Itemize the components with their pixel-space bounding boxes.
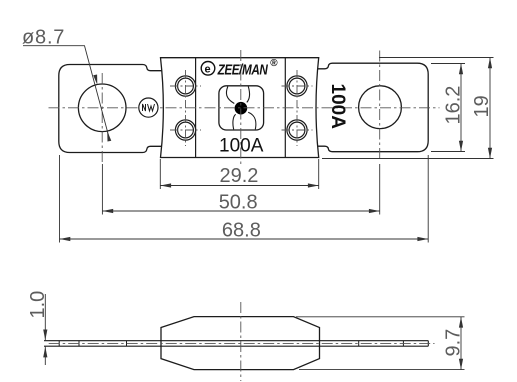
- strip hidden edges (hole projections): [59, 341, 403, 347]
- bolt centerlines: [170, 70, 313, 146]
- strip right end cap: [427, 341, 429, 347]
- dim 68.8 line: [60, 238, 429, 240]
- dim 9.7 line: [460, 317, 462, 370]
- left mounting hole: [78, 84, 126, 132]
- body parting line left: [195, 58, 197, 158]
- side view: body octagon: [161, 317, 320, 370]
- svg-text:9.7: 9.7: [443, 329, 465, 357]
- fuse element ribbon: [226, 87, 256, 130]
- svg-text:19: 19: [471, 95, 493, 117]
- svg-text:16.2: 16.2: [443, 86, 465, 125]
- dia leader line: [23, 46, 110, 141]
- dim 1.0 leader lines: [44, 294, 46, 340]
- svg-text:ø8.7: ø8.7: [22, 27, 65, 49]
- svg-text:100A: 100A: [219, 136, 264, 157]
- dim 16.2 extension lines: [431, 63, 465, 65]
- side view horizontal centerline: [49, 342, 435, 344]
- dim 29.2 extension lines: [159, 159, 161, 189]
- dim 16.2 line: [460, 64, 462, 152]
- svg-text:e: e: [205, 64, 211, 76]
- vertical centerline through window: [240, 50, 242, 164]
- body parting line right: [284, 58, 286, 158]
- inspection window: [219, 86, 264, 130]
- ZEEMAN logo: [201, 62, 215, 76]
- top view: left terminal tab outline with neck: [59, 65, 167, 153]
- bolt stud bottom-left: [175, 120, 195, 140]
- bolt stud top-right: [287, 76, 307, 96]
- svg-text:100A: 100A: [327, 84, 348, 130]
- dim 68.8 extension lines: [59, 155, 61, 243]
- dia arrows: [93, 75, 97, 85]
- bolt stud top-left: [175, 76, 307, 140]
- svg-text:®: ®: [270, 58, 278, 69]
- vertical centerline left hole: [101, 73, 103, 162]
- svg-text:29.2: 29.2: [220, 165, 259, 187]
- dim 19 line: [489, 58, 491, 159]
- top view: fuse body (waisted rectangle): [161, 58, 319, 158]
- svg-text:68.8: 68.8: [222, 219, 261, 241]
- dim 19 extension lines: [379, 57, 494, 59]
- dim 9.7 extension lines: [296, 316, 465, 318]
- stamp logo circle on neck: [139, 98, 158, 117]
- side view vertical centerline: [240, 302, 242, 381]
- side view: blade strip bottom edge: [44, 345, 428, 347]
- svg-text:50.8: 50.8: [219, 192, 258, 214]
- right mounting hole: [359, 86, 402, 129]
- element center dot: [235, 102, 248, 115]
- dim 50.8 extension lines: [101, 164, 103, 215]
- vertical centerline right hole: [379, 51, 381, 163]
- side view: blade strip top edge: [44, 340, 428, 342]
- top view: right terminal tab outline with neck: [312, 63, 428, 152]
- main horizontal centerline: [49, 107, 440, 109]
- dim 50.8 line: [102, 210, 379, 212]
- svg-text:ZEE/MAN: ZEE/MAN: [217, 61, 268, 78]
- bolt stud bottom-right: [287, 120, 307, 140]
- svg-text:1.0: 1.0: [27, 291, 49, 319]
- dim 29.2 line: [160, 185, 318, 187]
